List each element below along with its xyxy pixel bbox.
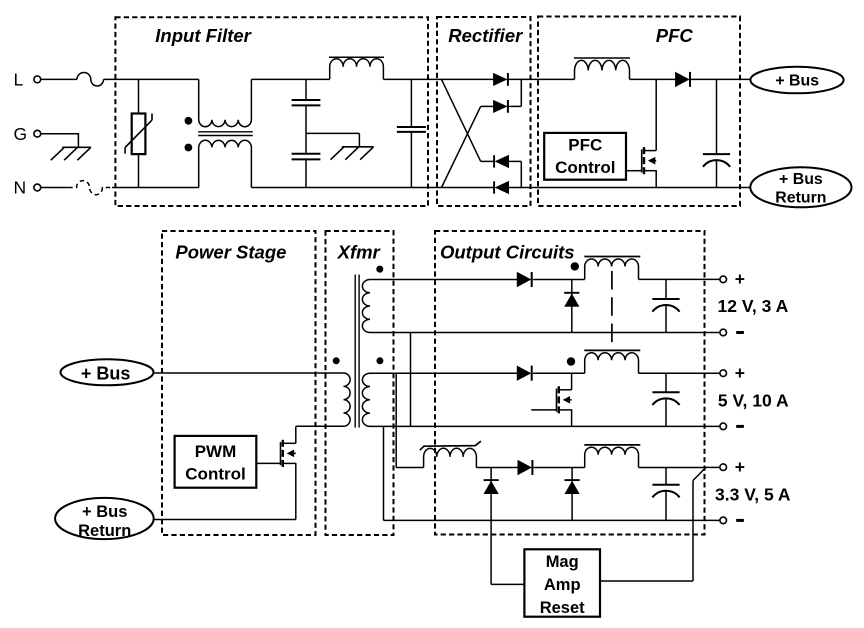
wire Q3 source <box>571 409 573 426</box>
svg-text:Rectifier: Rectifier <box>448 25 524 46</box>
inductor L3 core bar <box>584 256 640 258</box>
wire L3 to 12V+ <box>639 278 720 280</box>
PFC Control box <box>544 133 626 180</box>
wire D2 cathode <box>509 105 522 107</box>
wire D5 to +Bus <box>691 78 751 80</box>
svg-text:3.3 V, 5 A: 3.3 V, 5 A <box>715 485 791 505</box>
node + Bus Return (ellipse) <box>750 167 851 207</box>
wire Q1 drain <box>655 79 657 150</box>
dashed block: Xfmr <box>326 231 394 535</box>
coupled-inductor dashed link <box>611 271 613 351</box>
wire D9 to L6 <box>534 467 585 469</box>
rectifier cross wire B <box>442 106 481 187</box>
secondary winding W2 (5V) <box>362 373 370 426</box>
capacitor CX1 <box>410 79 412 127</box>
3.3V - sign <box>736 519 744 522</box>
W1 polarity dot <box>376 266 383 273</box>
inductor L4 (5V) <box>585 353 639 373</box>
mag-amp saturable reactor L5 <box>424 448 477 467</box>
inductor L1 (differential filter) <box>330 59 384 80</box>
inductor L2 core bar <box>574 57 630 59</box>
wire to D2 <box>481 105 494 107</box>
svg-text:+ Bus: + Bus <box>82 503 127 521</box>
wire G to ground <box>41 133 79 135</box>
wire W2 to common return <box>383 426 385 520</box>
dashed block: Output Circuits <box>435 231 705 535</box>
wire L terminal to fuse <box>41 78 77 80</box>
svg-text:+ Bus: + Bus <box>81 363 131 383</box>
wire N into Input Filter <box>112 187 199 189</box>
common-mode choke core <box>198 131 253 133</box>
svg-text:Return: Return <box>775 190 826 207</box>
transformer primary winding <box>344 373 351 426</box>
wire 12V rail <box>370 279 517 281</box>
PFC switch Q1 (MOSFET) <box>641 149 643 172</box>
rectifier diode D4 <box>495 181 508 193</box>
inductor L6 (3.3V) <box>585 447 639 467</box>
svg-text:12 V, 3 A: 12 V, 3 A <box>718 296 789 316</box>
terminal 3.3V - <box>720 517 727 524</box>
wire 5V rail <box>370 372 517 374</box>
power switch Q2 (MOSFET) <box>280 442 282 465</box>
wire mag-amp tap <box>395 373 397 467</box>
common-mode choke T1 bottom winding <box>199 140 252 187</box>
primary polarity dot <box>333 357 340 364</box>
wire L rail after choke <box>251 78 329 80</box>
L5 core bar with reset ticks <box>420 441 481 450</box>
choke polarity dot (bottom) <box>185 144 193 152</box>
chassis ground (input filter) <box>342 146 374 148</box>
terminal 12V - <box>720 329 727 336</box>
dashed block: Input Filter <box>115 17 428 206</box>
wire + Bus to transformer primary <box>154 372 344 374</box>
rectifier cross wire A <box>442 79 481 161</box>
inductor L3 (12V) <box>585 259 639 279</box>
svg-text:Reset: Reset <box>540 599 585 617</box>
node + Bus (ellipse) <box>750 67 843 94</box>
rectifier diode D1 <box>493 73 506 85</box>
svg-text:+: + <box>735 269 745 289</box>
dashed block: Power Stage <box>162 231 316 535</box>
rectifier diode D3 <box>495 155 508 167</box>
W2 polarity dot <box>376 357 383 364</box>
svg-text:Return: Return <box>78 522 131 540</box>
inductor L2 (PFC boost) <box>575 60 630 79</box>
svg-text:L: L <box>14 70 24 90</box>
terminal G <box>34 130 41 137</box>
wire + Bus Return to Q2 source <box>154 519 296 521</box>
svg-text:5 V, 10 A: 5 V, 10 A <box>718 391 789 411</box>
svg-text:N: N <box>14 178 27 198</box>
wire D3 anode <box>509 160 522 162</box>
choke polarity dot (top) <box>185 117 193 125</box>
svg-text:PFC: PFC <box>568 135 602 154</box>
freewheel diode D10 <box>490 468 492 585</box>
inductor L6 core bar <box>584 444 640 446</box>
svg-text:PFC: PFC <box>656 25 694 46</box>
wire Y-cap midpoint to ground <box>306 132 359 134</box>
wire D10 to Mag Amp Reset <box>491 583 524 585</box>
capacitor CY1 <box>305 79 307 100</box>
PWM Control box <box>175 436 257 488</box>
sync rectifier Q3 (MOSFET) <box>556 389 558 412</box>
wire to D3 <box>481 160 494 162</box>
inductor L4 core bar <box>584 349 640 351</box>
wire Mag Amp Reset to 3.3V+ <box>600 580 693 582</box>
wire Q3 drain <box>571 373 573 390</box>
svg-text:Power Stage: Power Stage <box>175 241 286 262</box>
wire L into Input Filter <box>104 78 199 80</box>
wire L2 to boost diode <box>630 78 676 80</box>
fuse F1 on line L <box>77 73 104 87</box>
capacitor C4 (3.3V) <box>665 468 667 485</box>
svg-text:Input Filter: Input Filter <box>155 25 252 46</box>
fuse F2 (dashed) on line N <box>68 181 112 195</box>
wire Q1 source <box>655 170 657 188</box>
coupling dot 5V <box>567 357 575 365</box>
wire N rail through rectifier to PFC <box>509 187 751 189</box>
wire L5 to D9 <box>476 467 517 469</box>
svg-text:Xfmr: Xfmr <box>337 241 382 262</box>
12V - sign <box>736 331 744 334</box>
chassis ground (G input) <box>62 146 91 148</box>
wire D6 to L3 <box>533 279 585 281</box>
svg-text:PWM: PWM <box>195 442 237 461</box>
svg-text:+ Bus: + Bus <box>779 171 823 188</box>
wire D3-D4 junction <box>520 161 522 188</box>
svg-text:Control: Control <box>555 158 615 177</box>
node + Bus Return left (ellipse) <box>55 498 154 539</box>
svg-text:Mag: Mag <box>546 553 579 571</box>
terminal 5V - <box>720 423 727 430</box>
terminal N <box>34 184 41 191</box>
inductor L1 core bar <box>329 56 384 58</box>
svg-text:Amp: Amp <box>544 576 581 594</box>
diode D8 (5V) <box>517 366 531 380</box>
5V - sign <box>736 425 744 428</box>
wire D1 to PFC <box>509 78 575 80</box>
svg-text:G: G <box>14 124 28 144</box>
capacitor C2 (12V) <box>665 279 667 299</box>
wire L6 to 3.3V+ <box>639 467 706 469</box>
diode D9 (3.3V) <box>518 460 532 474</box>
diode D6 (12V) <box>517 272 531 286</box>
svg-text:+: + <box>735 457 745 477</box>
capacitor C1 (bulk) <box>716 79 718 154</box>
wire D8 to L4 <box>533 372 585 374</box>
freewheel diode D11 <box>571 468 573 521</box>
svg-text:Output Circuits: Output Circuits <box>440 241 575 262</box>
svg-text:Control: Control <box>185 464 245 483</box>
wire 12V-5V return connector <box>410 333 412 427</box>
svg-text:+ Bus: + Bus <box>775 73 819 90</box>
rectifier diode D2 <box>493 100 506 112</box>
secondary winding W1 (12V) <box>362 280 370 333</box>
boost diode D5 <box>675 72 689 86</box>
wire 12V return rail <box>370 332 720 334</box>
wire 5V return rail <box>370 425 720 427</box>
wire D1-D2 junction <box>520 79 522 107</box>
varistor RV1 <box>138 79 140 113</box>
terminal L <box>34 76 41 83</box>
wire 3.3V return rail <box>384 519 720 521</box>
common-mode choke T1 top winding <box>199 79 252 126</box>
wire L4 to 5V+ <box>639 372 720 374</box>
dashed block: Rectifier <box>437 17 531 206</box>
svg-text:+: + <box>735 363 745 383</box>
terminal 12V + <box>720 276 727 283</box>
capacitor CY2 <box>305 133 307 153</box>
wire N rail to rectifier <box>251 187 494 189</box>
terminal 5V + <box>720 370 727 377</box>
wire L rail to rectifier <box>383 78 493 80</box>
wire N terminal <box>41 187 68 189</box>
node + Bus left (ellipse) <box>61 359 154 385</box>
wire Q2 drain to primary <box>295 426 297 443</box>
terminal 3.3V + <box>720 464 727 471</box>
Mag Amp Reset box <box>524 549 600 616</box>
transformer T2 core <box>354 275 356 428</box>
coupling dot 12V <box>571 262 579 270</box>
freewheel diode D7 <box>571 280 573 333</box>
dashed block: PFC <box>538 17 740 207</box>
capacitor C3 (5V) <box>665 373 667 392</box>
